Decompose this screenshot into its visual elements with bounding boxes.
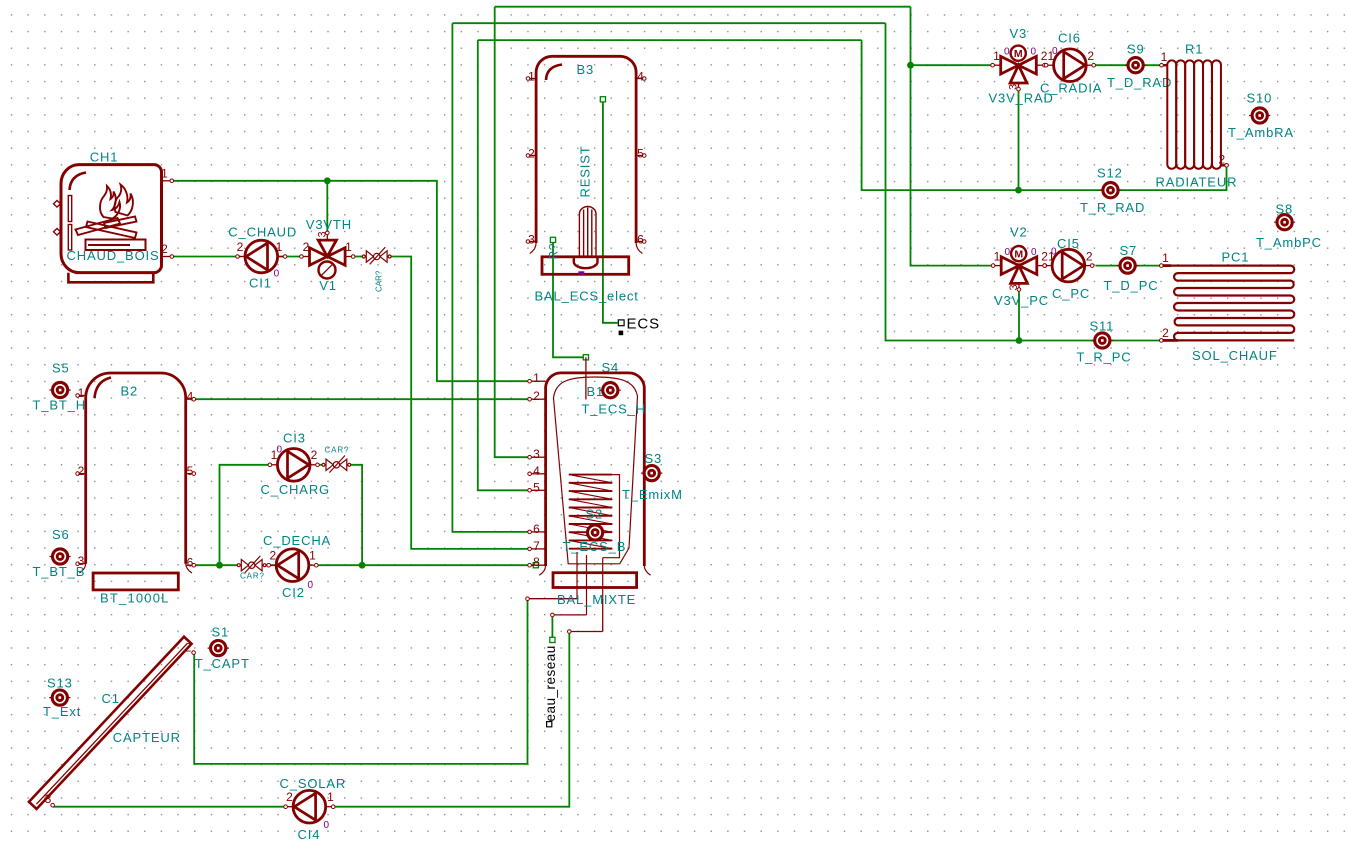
svg-text:S4: S4 xyxy=(602,360,620,375)
tank B3 pin 2 xyxy=(530,155,536,157)
svg-text:SOL_CHAUF: SOL_CHAUF xyxy=(1192,348,1278,363)
check valve CAR? (decharge) xyxy=(237,556,266,573)
sensor S4 xyxy=(600,383,621,398)
sensor S3 xyxy=(641,466,662,481)
wire PC return right part to PC1 pin2 xyxy=(1111,340,1160,342)
tank B1 pin 7 xyxy=(531,548,545,550)
svg-text:T_D_RAD: T_D_RAD xyxy=(1107,75,1172,90)
valve V1 (V3VTH) xyxy=(300,231,355,278)
wire collector pin3 to CI4 xyxy=(53,806,285,808)
svg-text:S9: S9 xyxy=(1127,42,1145,57)
svg-text:1: 1 xyxy=(161,166,168,180)
svg-text:1: 1 xyxy=(345,240,352,254)
svg-text:1: 1 xyxy=(1161,50,1168,64)
radiator R1 pin 1 xyxy=(1163,64,1167,66)
svg-text:M: M xyxy=(1014,48,1023,60)
tank B1 bottom pin c xyxy=(571,599,603,632)
solar collector C1 xyxy=(29,637,192,809)
wire down-left to B1 pin5 xyxy=(478,40,529,490)
svg-text:BAL_MIXTE: BAL_MIXTE xyxy=(557,592,636,607)
svg-text:T_BT_H: T_BT_H xyxy=(33,398,87,413)
wire B3 to B1 top sensor node xyxy=(553,240,586,357)
svg-text:2: 2 xyxy=(1162,326,1169,340)
tank B3 pin 1 xyxy=(530,78,536,80)
svg-text:1: 1 xyxy=(309,549,316,563)
wire collector pin2 to B1 bottom xyxy=(194,600,527,764)
svg-text:0: 0 xyxy=(324,820,330,831)
svg-text:3: 3 xyxy=(45,792,52,806)
svg-text:T_CAPT: T_CAPT xyxy=(195,656,250,671)
sensor S13 xyxy=(49,690,70,705)
sensor S1 xyxy=(208,641,229,656)
wire CI4 to B1 bottom coil xyxy=(335,633,570,807)
svg-text:T_Ext: T_Ext xyxy=(43,704,81,719)
svg-text:CAR?: CAR? xyxy=(325,446,350,455)
pump CI1 xyxy=(236,240,287,273)
svg-text:CAPTEUR: CAPTEUR xyxy=(113,730,181,745)
wire down-right to V2 pin1 xyxy=(911,7,992,266)
tank B1 pin 4 xyxy=(531,473,545,475)
svg-text:CI5: CI5 xyxy=(1057,236,1080,251)
wire CI2 to B1 pin8 xyxy=(316,564,534,566)
boiler CH1 pin 1 xyxy=(161,180,170,182)
boiler CH1 base xyxy=(68,273,153,283)
svg-text:1: 1 xyxy=(276,240,283,254)
svg-text:0: 0 xyxy=(274,269,280,280)
svg-text:T_AmbRA: T_AmbRA xyxy=(1228,125,1294,140)
tank B1 pin 6 xyxy=(531,531,545,533)
svg-text:S10: S10 xyxy=(1247,91,1273,106)
tank B3 pin 5 xyxy=(636,155,642,157)
wire down-right RAD return left part xyxy=(862,40,1103,190)
svg-text:R?: R? xyxy=(547,243,561,260)
sensor S5 xyxy=(50,382,71,397)
svg-text:T_ECS_H: T_ECS_H xyxy=(582,402,646,417)
svg-text:5: 5 xyxy=(533,480,540,494)
boiler CH1 ash pan xyxy=(86,240,146,251)
svg-text:C_RADIA: C_RADIA xyxy=(1040,81,1102,96)
tank B2 pin 6 xyxy=(186,564,192,566)
tank B1 bottom pin b xyxy=(554,614,587,616)
tank B2 base xyxy=(93,573,178,590)
wire down-left to B1 pin6 xyxy=(452,23,528,532)
wire CI3 to check valve xyxy=(317,464,325,466)
tank B1 base xyxy=(553,573,637,588)
pump CI5 xyxy=(1043,249,1094,282)
svg-text:1: 1 xyxy=(327,790,334,804)
svg-text:8: 8 xyxy=(533,555,540,569)
wire CI1 to V1 xyxy=(279,256,301,258)
wire B2 pin4 to B1 pin2 xyxy=(196,398,529,400)
tank B3 pin 6 xyxy=(636,241,642,243)
junction valves supply xyxy=(907,62,914,69)
pump CI2 xyxy=(267,549,318,582)
check valve CAR? (boiler loop) xyxy=(362,247,391,264)
svg-text:4: 4 xyxy=(187,390,194,404)
svg-text:CI2: CI2 xyxy=(282,585,305,600)
tank B1 inner vessel xyxy=(554,377,638,564)
tank B2 pin 4 xyxy=(186,398,192,400)
wire branch up to CI3 xyxy=(220,465,271,565)
boiler CH1 fire icon xyxy=(76,185,137,239)
wire end square above B1 xyxy=(583,355,588,360)
svg-text:2: 2 xyxy=(533,389,540,403)
svg-text:4: 4 xyxy=(533,464,540,478)
svg-text:T_D_PC: T_D_PC xyxy=(1104,278,1159,293)
valve V3 (V3V_RAD) xyxy=(991,46,1046,91)
svg-text:7: 7 xyxy=(533,539,540,553)
tank B1 pin 5 xyxy=(531,489,545,491)
pump CI4 xyxy=(284,790,335,823)
svg-text:S8: S8 xyxy=(1276,202,1294,217)
svg-text:PC1: PC1 xyxy=(1222,250,1250,265)
wire end square eau_reseau xyxy=(550,637,555,642)
svg-text:CI4: CI4 xyxy=(298,827,321,842)
junction V3 return xyxy=(1015,187,1022,194)
wire down-left to B1 pin3 xyxy=(495,7,529,458)
svg-text:R1: R1 xyxy=(1185,42,1203,57)
wire V3 bottom port to RAD return xyxy=(1018,91,1020,191)
sensor S9 xyxy=(1125,58,1146,73)
svg-text:S13: S13 xyxy=(47,676,73,691)
radiator R1 xyxy=(1167,60,1221,168)
collector C1 pin 2 xyxy=(192,651,196,655)
boiler CH1 door arc xyxy=(70,173,87,191)
svg-text:BT_1000L: BT_1000L xyxy=(100,591,170,606)
sensor S2 xyxy=(585,525,606,540)
svg-text:ECS: ECS xyxy=(627,316,661,333)
svg-text:S2: S2 xyxy=(586,507,604,522)
wire B3 to ECS label xyxy=(603,99,618,322)
wire check valve to B1 pin7 xyxy=(388,257,529,549)
coil pipes in B1 xyxy=(577,475,620,615)
wire V2 bottom port to PC return xyxy=(1018,291,1020,341)
tank B1 body xyxy=(546,373,645,566)
svg-text:0: 0 xyxy=(1052,46,1058,57)
svg-text:V3VTH: V3VTH xyxy=(306,217,352,232)
svg-text:T_R_PC: T_R_PC xyxy=(1077,350,1132,365)
boiler CH1 body xyxy=(61,165,162,273)
svg-text:4: 4 xyxy=(637,70,644,84)
wire eau_reseau stub xyxy=(551,616,553,640)
svg-text:2: 2 xyxy=(185,641,192,655)
svg-text:6: 6 xyxy=(533,522,540,536)
svg-text:V2: V2 xyxy=(1010,225,1028,240)
wire end square B3 left xyxy=(550,237,555,242)
svg-text:6: 6 xyxy=(637,233,644,247)
boiler CH1 hinges xyxy=(54,201,61,236)
svg-text:CI3: CI3 xyxy=(283,431,306,446)
tank B2 body xyxy=(86,373,186,564)
svg-text:2: 2 xyxy=(303,240,310,254)
svg-text:2: 2 xyxy=(1086,249,1093,263)
svg-text:CI1: CI1 xyxy=(249,276,272,291)
svg-text:B2: B2 xyxy=(121,384,139,399)
junction V1 top xyxy=(324,177,331,184)
junction V2 return xyxy=(1016,337,1023,344)
wire branch to V3 pin1 xyxy=(911,64,992,66)
svg-text:C_CHAUD: C_CHAUD xyxy=(228,224,297,239)
svg-text:RESIST: RESIST xyxy=(578,145,593,197)
svg-text:V3V_PC: V3V_PC xyxy=(994,293,1049,308)
svg-text:2: 2 xyxy=(78,464,85,478)
heating element RESIST in B3 xyxy=(574,207,598,269)
svg-text:5: 5 xyxy=(187,464,194,478)
sensor S8 xyxy=(1274,215,1295,230)
wire V1 to check valve xyxy=(355,256,366,258)
wire net B1.6 top run xyxy=(452,22,885,24)
svg-text:S3: S3 xyxy=(645,451,663,466)
tank B1 pin 2 xyxy=(531,398,545,400)
wire RAD return to radiator pin2 xyxy=(1119,167,1227,191)
svg-text:3: 3 xyxy=(1008,84,1020,90)
svg-text:C_DECHA: C_DECHA xyxy=(263,533,331,548)
tank B3 inner arc xyxy=(546,65,562,81)
wire net B1.5 top run xyxy=(478,39,862,41)
junction decharge branch xyxy=(216,562,223,569)
svg-text:2: 2 xyxy=(311,448,318,462)
svg-text:CHAUD_BOIS: CHAUD_BOIS xyxy=(67,248,160,263)
svg-text:CH1: CH1 xyxy=(90,150,119,165)
svg-text:2: 2 xyxy=(269,549,276,563)
svg-text:6: 6 xyxy=(187,556,194,570)
sensor S11 xyxy=(1092,333,1113,348)
svg-text:C_SOLAR: C_SOLAR xyxy=(280,776,347,791)
tank B1 pin 1 xyxy=(531,380,545,382)
tank B3 pin 3 xyxy=(530,241,536,243)
wire CH1 pin2 to CI1 xyxy=(173,256,240,258)
svg-text:3: 3 xyxy=(1008,284,1020,290)
hidden pin mark B3 xyxy=(578,271,584,274)
svg-text:V1: V1 xyxy=(319,278,337,293)
svg-text:0: 0 xyxy=(277,445,283,456)
svg-text:M: M xyxy=(1014,248,1023,260)
svg-text:S7: S7 xyxy=(1120,243,1138,258)
svg-text:2: 2 xyxy=(1087,49,1094,63)
svg-text:3: 3 xyxy=(533,447,540,461)
svg-text:0: 0 xyxy=(1004,47,1010,58)
coil PC1 pin 1 xyxy=(1163,264,1171,267)
junction charge branch xyxy=(359,562,366,569)
svg-text:C1: C1 xyxy=(102,691,120,706)
svg-text:2: 2 xyxy=(1218,153,1225,167)
svg-text:BAL_ECS_elect: BAL_ECS_elect xyxy=(535,289,639,304)
pin line B1 top internal xyxy=(585,357,587,399)
heat exchanger coil in B1 xyxy=(569,475,613,549)
svg-text:5: 5 xyxy=(637,147,644,161)
svg-text:RADIATEUR: RADIATEUR xyxy=(1156,175,1238,190)
tank B3 base xyxy=(542,257,629,275)
svg-text:V3: V3 xyxy=(1010,26,1028,41)
svg-text:S5: S5 xyxy=(52,361,70,376)
wire S7 to PC1 pin1 xyxy=(1137,265,1160,267)
pump CI6 xyxy=(1044,49,1095,82)
svg-text:eau_reseau: eau_reseau xyxy=(543,645,558,721)
sensor S10 xyxy=(1249,108,1270,123)
svg-text:S1: S1 xyxy=(212,625,230,640)
wire CI5 to S7 xyxy=(1096,265,1119,267)
wire CI6 to S9 xyxy=(1096,64,1127,66)
svg-text:3: 3 xyxy=(528,233,535,247)
svg-text:2: 2 xyxy=(237,240,244,254)
wire V1 top port to CH1 net xyxy=(326,181,328,231)
wire net B1.3 to valves top run xyxy=(495,6,911,8)
svg-text:CI6: CI6 xyxy=(1058,31,1081,46)
coil PC1 pin 2 xyxy=(1163,339,1178,342)
sensor S6 xyxy=(50,549,71,564)
sensor S7 xyxy=(1117,258,1138,273)
svg-text:3: 3 xyxy=(317,231,329,237)
svg-text:0: 0 xyxy=(1051,246,1057,257)
floor heating coil PC1 xyxy=(1170,266,1294,341)
svg-text:1: 1 xyxy=(1162,251,1169,265)
boiler CH1 door bars xyxy=(68,196,71,251)
svg-text:C_CHARG: C_CHARG xyxy=(261,482,331,497)
tank B2 pin 5 xyxy=(186,473,192,475)
svg-text:T_R_RAD: T_R_RAD xyxy=(1080,200,1145,215)
wire B2 pin6 to check valve xyxy=(196,564,240,566)
wire end square B1 pin8 xyxy=(533,563,538,568)
wire end square B3 top xyxy=(600,97,605,102)
svg-text:B3: B3 xyxy=(577,62,595,77)
svg-text:0: 0 xyxy=(1005,247,1011,258)
hierarchical label ECS xyxy=(618,320,624,326)
svg-text:1: 1 xyxy=(533,371,540,385)
boiler CH1 pin 2 xyxy=(161,256,170,258)
svg-text:2: 2 xyxy=(528,147,535,161)
tank B2 pin 2 xyxy=(79,473,85,475)
wire CH1 pin1 to B1 pin1 xyxy=(173,181,528,381)
collector C1 pin 3 xyxy=(51,803,55,807)
radiator R1 pin 2 xyxy=(1221,164,1225,166)
pump CI3 xyxy=(268,449,319,482)
svg-text:S6: S6 xyxy=(52,527,70,542)
svg-text:T_AmbPC: T_AmbPC xyxy=(1256,235,1322,250)
sensor S12 xyxy=(1100,183,1121,198)
svg-text:1: 1 xyxy=(528,70,535,84)
valve V2 (V3V_PC) xyxy=(991,246,1046,291)
svg-text:1: 1 xyxy=(994,249,1001,263)
tank B3 pin 4 xyxy=(636,78,642,80)
svg-text:CAR?: CAR? xyxy=(240,572,265,581)
tank B2 inner arc xyxy=(95,378,112,399)
svg-text:0: 0 xyxy=(1031,247,1037,258)
tank B1 bottom pin a xyxy=(529,598,578,600)
svg-text:2: 2 xyxy=(161,242,168,256)
tank B1 pin 3 xyxy=(531,456,545,458)
svg-text:S12: S12 xyxy=(1097,166,1123,181)
check valve CAR? (charge) xyxy=(322,456,351,473)
svg-text:2: 2 xyxy=(286,790,293,804)
tank B3 body xyxy=(536,56,636,243)
wire S9 to radiator pin1 xyxy=(1145,64,1163,66)
svg-text:1: 1 xyxy=(993,49,1000,63)
tank B1 pin 8 xyxy=(531,564,545,566)
svg-text:CAR?: CAR? xyxy=(375,270,384,292)
wire down-right PC return left part xyxy=(886,23,1095,340)
svg-text:C_PC: C_PC xyxy=(1052,286,1090,301)
svg-text:T_BT_B: T_BT_B xyxy=(33,564,86,579)
svg-text:S11: S11 xyxy=(1090,319,1115,334)
wire check valve to CI2 xyxy=(265,564,276,566)
tank B2 pin 1 xyxy=(79,395,85,397)
svg-text:0: 0 xyxy=(308,580,314,591)
svg-text:T_EmixM: T_EmixM xyxy=(622,487,683,502)
tank B2 pin 3 xyxy=(79,563,85,565)
hierarchical label eau_reseau xyxy=(547,722,552,727)
svg-text:0: 0 xyxy=(1031,47,1037,58)
wire check valve down to junction xyxy=(349,465,362,565)
